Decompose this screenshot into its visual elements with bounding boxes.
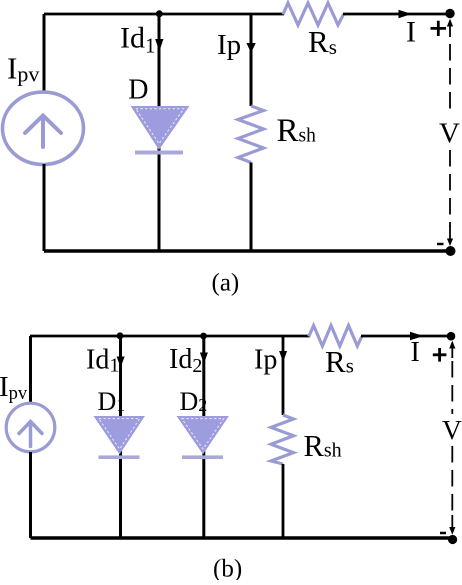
wire top-right (b) [361,335,451,338]
wire left (b) upper [29,336,32,404]
wire diode branch (a) [158,14,161,251]
wire top-left (a) [44,13,284,16]
voltage V dashed line upper (b) [451,361,453,414]
voltage V dashed line lower (b) [451,446,453,516]
svg-text:(b): (b) [213,556,242,581]
svg-text:I: I [411,337,420,368]
voltage V dashed line top arrow (a) [449,21,451,38]
current arrow Ip (b) [279,351,287,362]
resistor Rsh (b) zigzag [271,415,294,464]
resistor Rs (a) zigzag [283,3,344,25]
voltage V dashed line upper (a) [449,44,451,113]
voltage V dashed line bottom arrow (a) [449,226,451,243]
svg-text:Id1: Id1 [120,22,156,58]
svg-text:Ipv: Ipv [7,51,39,87]
svg-text:Rsh: Rsh [277,113,317,149]
svg-text:Rsh: Rsh [304,429,342,463]
current source U1 circle [3,92,84,164]
svg-text:D: D [128,75,148,106]
wire bottom (b) [31,536,453,539]
current arrow Ip (a) [246,43,255,53]
node terminal dot bottom (a) [446,246,456,256]
current arrow I (b) [410,332,424,340]
resistor Rs (b) zigzag [309,326,362,347]
voltage V dashed line top arrow (b) [451,343,453,359]
plus terminal symbol (b) [433,348,447,362]
diode D (a) [132,107,189,155]
current source U2 circle [6,403,55,452]
svg-text:V: V [442,414,462,445]
resistor Rsh (a) zigzag [238,106,264,163]
wire Rsh branch (a) upper [250,14,253,106]
svg-text:Rs: Rs [325,344,354,379]
wire left (a) lower [43,164,46,251]
svg-text:Ipv: Ipv [0,371,28,404]
svg-text:(a): (a) [212,270,240,297]
svg-text:Ip: Ip [217,29,241,61]
svg-text:I: I [406,16,416,49]
minus terminal symbol (b) [440,532,446,535]
wire diode D2 branch (b) [202,336,205,538]
voltage V dashed line bottom arrow (b) [451,515,453,531]
node junction dot diode (a) [156,10,163,17]
wire Rsh branch (b) lower [282,464,285,538]
node terminal dot bottom (b) [448,535,457,544]
wire top-right (a) [343,13,450,16]
node junction dot D1 (b) [117,332,124,339]
wire left (b) lower [29,452,32,538]
svg-text:Id1: Id1 [86,345,119,377]
current source U2 arrow [19,422,42,447]
current arrow Id2 (b) [200,353,208,364]
current arrow Id1 (b) [117,357,125,368]
node junction dot D2 (b) [200,333,207,340]
current arrow Id1 (a) [155,39,163,52]
wire diode D1 branch (b) [119,336,122,538]
current arrow I (a) [399,10,412,18]
wire Rsh branch (b) upper [282,336,285,415]
wire left (a) upper [43,14,46,93]
diode D2 (b) [178,417,229,460]
wire top-left (b) [30,335,310,338]
voltage V dashed line lower (a) [449,150,451,227]
svg-text:V: V [439,118,460,150]
minus terminal symbol (a) [437,243,444,246]
wire bottom (a) [44,249,450,252]
plus terminal symbol (a) [431,21,447,36]
svg-text:Rs: Rs [308,24,337,59]
wire Rsh branch (a) lower [250,163,253,252]
node terminal dot top (a) [445,9,454,18]
node terminal dot top (b) [447,332,456,341]
svg-text:Ip: Ip [254,345,277,376]
diode D1 (b) [95,417,145,460]
current source U1 arrow [25,116,61,148]
svg-text:Id2: Id2 [169,344,202,377]
